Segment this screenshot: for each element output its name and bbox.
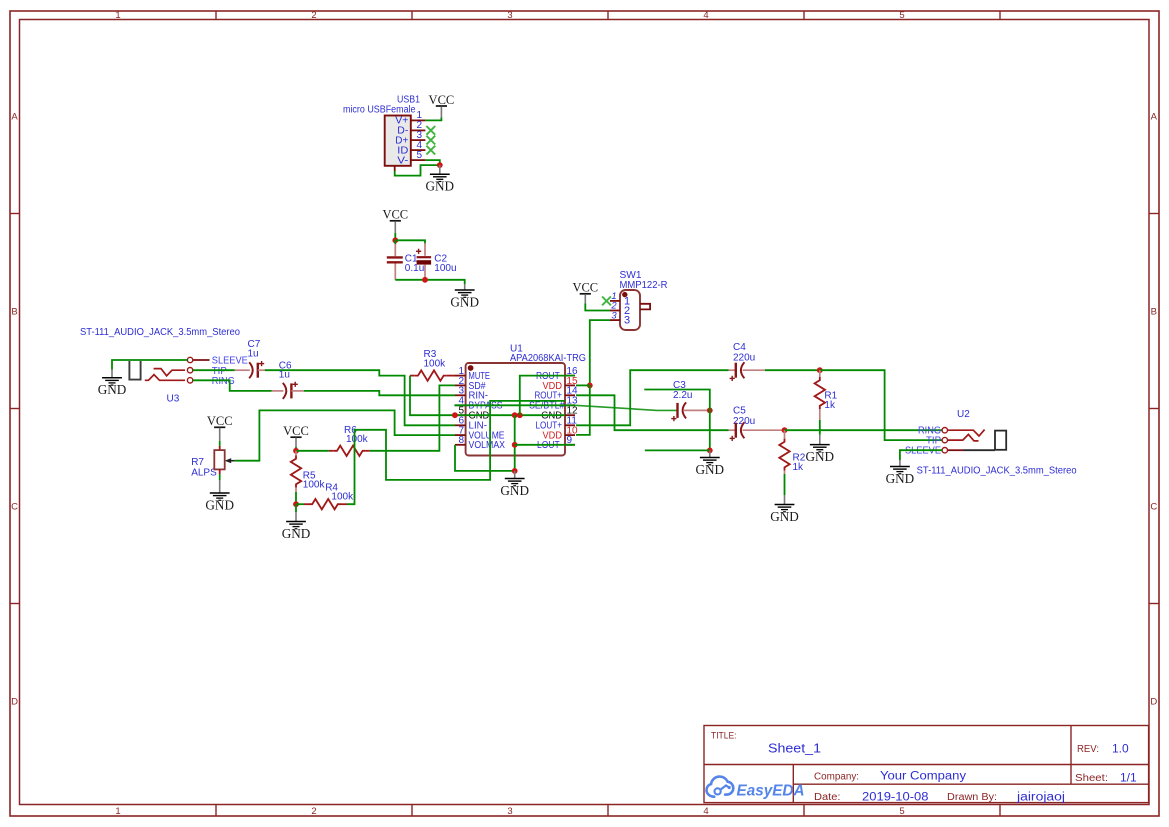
wire C1/C2 bottoms to GND <box>395 280 464 284</box>
wire C6 to U1 RIN- <box>304 391 455 395</box>
svg-text:Drawn By:: Drawn By: <box>947 792 997 803</box>
junction below U1 <box>512 468 518 474</box>
svg-text:VCC: VCC <box>382 208 408 222</box>
pin 3 (D+) <box>411 139 426 141</box>
ground (GND at U3) <box>98 378 127 397</box>
capacitor C1 0.1u <box>387 244 424 280</box>
wire pin15 to VDD net <box>576 384 590 386</box>
svg-text:1.0: 1.0 <box>1112 742 1129 756</box>
resistor R4 100k <box>304 482 354 509</box>
wire R5 to node <box>295 492 297 504</box>
junction at C1/C2 top node <box>392 237 398 243</box>
ground (GND at U2) <box>886 467 915 486</box>
svg-text:GND: GND <box>696 462 725 477</box>
wire VOLMAX to GND <box>455 445 515 471</box>
wire R4 jog to U1 <box>347 401 565 504</box>
svg-text:A: A <box>1151 112 1158 123</box>
wire upper into C3 node <box>644 390 710 411</box>
wire BYPASS to SE/BTL# <box>454 404 575 406</box>
svg-text:4: 4 <box>703 10 708 21</box>
wire C4 row to U2 TIP <box>820 370 942 440</box>
wire node to R4 <box>296 503 304 505</box>
capacitor C6 1u <box>272 361 304 399</box>
svg-text:U2: U2 <box>957 409 970 420</box>
svg-text:GND: GND <box>770 509 799 524</box>
ground (GND below USB1) <box>426 174 455 193</box>
wire R6 to U1 SD# <box>370 385 455 450</box>
svg-text:3: 3 <box>624 315 630 327</box>
wire (ground stem) <box>514 471 516 479</box>
pin 2 (D-) <box>411 129 426 131</box>
no-connect on USB1 pin 4 <box>426 146 435 155</box>
svg-text:1: 1 <box>115 10 120 21</box>
wire USB1 shield to GND node <box>395 165 440 176</box>
svg-text:1: 1 <box>115 806 120 817</box>
svg-text:RING: RING <box>212 376 235 387</box>
svg-text:4: 4 <box>703 806 708 817</box>
SW1 pin 3 <box>610 319 620 321</box>
U2 SLEEVE pin <box>948 449 964 451</box>
U1 pin 8 (VOLMAX) <box>455 435 505 451</box>
wire node to R6 <box>296 450 329 452</box>
wire LOUT- row to gnd node <box>645 449 710 451</box>
svg-text:GND: GND <box>426 179 455 194</box>
svg-text:1k: 1k <box>793 462 805 473</box>
svg-text:1/1: 1/1 <box>1120 771 1137 785</box>
pin 5 (V-) <box>411 159 426 161</box>
svg-text:5: 5 <box>899 806 904 817</box>
svg-text:C: C <box>11 502 18 513</box>
U2 pin circles <box>942 428 947 433</box>
ground (GND below R2) <box>770 505 799 524</box>
U3 pin circles <box>187 357 192 362</box>
junction GND row b <box>517 412 523 418</box>
U3 SLEEVE pin <box>193 359 210 361</box>
svg-text:8: 8 <box>458 435 464 446</box>
wire ROUT+ down to C5 <box>576 395 729 430</box>
switch SW1 MMP122-R <box>610 270 668 330</box>
svg-text:5: 5 <box>417 150 423 161</box>
wire LOUT+ to C4 <box>576 370 729 425</box>
capacitor C2 100u <box>416 243 457 280</box>
wire U3 ring to C6 <box>193 380 272 391</box>
svg-text:Sheet:: Sheet: <box>1075 773 1108 784</box>
svg-text:ST-111_AUDIO_JACK_3.5mm_Stereo: ST-111_AUDIO_JACK_3.5mm_Stereo <box>917 466 1077 477</box>
SW1 pin 1 <box>610 300 620 302</box>
svg-text:GND: GND <box>450 294 479 309</box>
power VCC (VCC at USB1) <box>429 93 455 118</box>
wire (ground stem) <box>709 450 711 457</box>
wire U3 sleeve to GND <box>112 360 187 370</box>
wire GND row down <box>514 415 516 471</box>
wire VCC to node <box>295 447 297 451</box>
U1 pin 3 (RIN-) <box>455 386 488 402</box>
svg-text:Date:: Date: <box>814 792 841 803</box>
power VCC (VCC at SW1) <box>572 281 598 304</box>
U1 pin 12 (GND) <box>541 406 578 422</box>
svg-text:3: 3 <box>611 310 617 321</box>
svg-text:GND: GND <box>500 483 529 498</box>
svg-text:U3: U3 <box>167 394 180 405</box>
ground (GND below R5) <box>282 522 311 541</box>
svg-text:TITLE:: TITLE: <box>711 731 737 741</box>
wire node to C1 <box>394 240 396 244</box>
svg-text:VOLMAX: VOLMAX <box>469 440 506 451</box>
svg-text:100k: 100k <box>331 492 354 503</box>
U1 pin 4 (BYPASS) <box>455 396 503 412</box>
U2 RING contact <box>948 430 985 436</box>
svg-text:2019-10-08: 2019-10-08 <box>862 792 929 804</box>
svg-text:C4: C4 <box>733 342 746 353</box>
U1 pin 10 (VDD) <box>543 426 579 442</box>
U1 pin 6 (LIN-) <box>455 416 487 432</box>
svg-text:SLEEVE: SLEEVE <box>905 446 941 457</box>
ground (GND below C3) <box>696 458 725 477</box>
power VCC (VCC at C1/C2) <box>382 208 408 233</box>
wire ROUT- to GND row <box>520 376 575 416</box>
svg-text:D: D <box>1150 697 1157 708</box>
svg-text:ST-111_AUDIO_JACK_3.5mm_Stereo: ST-111_AUDIO_JACK_3.5mm_Stereo <box>80 327 240 338</box>
ground (GND below R7) <box>205 493 234 512</box>
U1 pin 9 (LOUT-) <box>537 435 575 451</box>
junction LOUT- row <box>512 442 518 448</box>
svg-text:GND: GND <box>98 382 127 397</box>
capacitor C3 2.2u <box>671 380 710 421</box>
no-connect on SW1 pin 1 <box>602 297 611 306</box>
wire (ground stem) <box>439 165 441 174</box>
U3 RING contact <box>145 375 185 381</box>
svg-text:2.2u: 2.2u <box>673 390 692 401</box>
svg-text:jairojaoj: jairojaoj <box>1016 792 1065 804</box>
svg-text:0.1u: 0.1u <box>405 263 424 274</box>
wire node to GND <box>295 504 297 512</box>
wire C4 to R1 node <box>765 369 820 371</box>
svg-text:1u: 1u <box>248 349 259 360</box>
svg-text:GND: GND <box>886 471 915 486</box>
svg-text:1u: 1u <box>279 370 290 381</box>
U3 plug body <box>129 361 140 380</box>
wire SW1 pin3 down to VDD net <box>590 320 610 385</box>
U1 pin 14 (ROUT+) <box>535 386 579 402</box>
wire GND row through U1 <box>455 414 565 416</box>
svg-text:B: B <box>1151 307 1157 318</box>
pin 1 (V+) <box>411 119 426 121</box>
wire R3 left to GND row <box>410 376 455 416</box>
SW1 pin 2 <box>610 310 620 312</box>
connector U2 ST-111 audio jack right <box>905 409 1077 477</box>
svg-text:2: 2 <box>311 10 316 21</box>
svg-text:GND: GND <box>205 497 234 512</box>
wire (ground stem) <box>819 435 821 445</box>
wire VCC to SW1 pin2 <box>585 304 610 311</box>
U1 pin 2 (SD#) <box>455 376 486 392</box>
resistor R6 100k <box>329 425 370 456</box>
svg-text:VCC: VCC <box>572 281 598 295</box>
wire VDD net to pin10 <box>576 385 590 435</box>
wire (ground stem) <box>464 284 466 290</box>
resistor R2 1k <box>779 430 805 474</box>
svg-text:100k: 100k <box>303 480 326 491</box>
U3 TIP contact <box>154 369 185 376</box>
svg-text:220u: 220u <box>733 353 755 364</box>
svg-text:100u: 100u <box>434 263 456 274</box>
op-amp U1 APA2068KAI-TRG <box>466 344 587 456</box>
wire diagonal SE/BTL# to C3 <box>575 405 678 410</box>
svg-text:Sheet_1: Sheet_1 <box>768 741 821 756</box>
U1 pin 16 (ROUT-) <box>536 366 578 382</box>
power VCC (VCC at R7) <box>207 414 233 441</box>
svg-text:GND: GND <box>282 526 311 541</box>
wire U2 sleeve to GND <box>900 450 942 460</box>
wire USB1 pin5 to GND node <box>425 160 439 165</box>
U1 pin 5 (GND) <box>455 406 489 422</box>
resistor R1 1k <box>815 370 838 420</box>
junction at C2 bottom <box>422 277 428 283</box>
svg-text:C5: C5 <box>733 406 746 417</box>
svg-text:Your Company: Your Company <box>880 771 966 783</box>
wire (ground stem) <box>784 495 786 505</box>
U2 plug body <box>995 431 1006 450</box>
wire R2 to GND <box>784 474 786 495</box>
U1 pin 1 (MUTE) <box>455 366 490 382</box>
wire VCC to USB1 pin1 <box>425 118 441 121</box>
wire C3 node down <box>709 410 711 450</box>
svg-text:D: D <box>11 697 18 708</box>
svg-text:100k: 100k <box>424 359 447 370</box>
junction at U1 pin5 <box>452 412 458 418</box>
wire (ground stem) <box>111 370 113 378</box>
svg-text:ALPS: ALPS <box>191 467 217 478</box>
svg-text:B: B <box>11 307 17 318</box>
title block <box>704 726 1149 804</box>
wire to LOUT- pin9 <box>515 444 575 446</box>
U1 pin 15 (VDD) <box>543 376 579 392</box>
junction at R4/R5 node <box>293 501 299 507</box>
connector USB1 micro USBFemale <box>343 95 425 172</box>
ground (GND below C1/C2) <box>450 290 479 309</box>
capacitor C4 220u <box>729 342 766 381</box>
svg-text:C: C <box>1150 502 1157 513</box>
EasyEDA logo <box>707 777 805 800</box>
resistor R5 100k <box>291 451 326 492</box>
capacitor C7 1u <box>235 339 265 378</box>
wire node to C2 <box>395 240 425 244</box>
U2 TIP contact <box>948 434 979 441</box>
ground (GND below R1) <box>806 445 835 464</box>
no-connect on USB1 pin 2 <box>426 126 435 135</box>
junction at C4/R1 <box>817 367 823 373</box>
wire (ground stem) <box>295 512 297 522</box>
wire U3 tip to C7 <box>193 369 235 371</box>
junction at C5/R2 <box>782 427 788 433</box>
resistor R3 100k <box>410 349 455 381</box>
wire R7 wiper to U1 VOLUME <box>235 410 455 460</box>
junction at U1 pin15 <box>587 383 593 389</box>
U1 pin 11 (LOUT+) <box>536 416 578 432</box>
junction at C3 gnd row <box>707 448 713 454</box>
junction at USB GND node <box>437 162 443 168</box>
wire VCC down to node <box>394 233 396 240</box>
USB1 shield pin <box>394 166 396 171</box>
wire (ground stem) <box>219 480 221 493</box>
svg-text:3: 3 <box>507 10 512 21</box>
wire (ground stem) <box>899 460 901 467</box>
potentiometer R7 ALPS <box>191 441 235 480</box>
ground (GND below U1) <box>500 479 529 498</box>
svg-text:V-: V- <box>397 155 408 166</box>
wire R1 to GND <box>819 420 821 435</box>
svg-text:A: A <box>11 112 18 123</box>
junction at R5/R6 node <box>293 448 299 454</box>
junction at C3 out <box>707 408 713 414</box>
connector U3 ST-111 audio jack left <box>80 327 248 405</box>
svg-text:1k: 1k <box>824 400 836 411</box>
svg-text:EasyEDA: EasyEDA <box>737 783 805 800</box>
svg-text:VCC: VCC <box>207 414 233 428</box>
svg-text:LOUT-: LOUT- <box>537 440 562 451</box>
wire C7 to U1 LIN- <box>265 370 455 425</box>
svg-text:micro USBFemale: micro USBFemale <box>343 105 416 116</box>
svg-text:Company:: Company: <box>814 772 859 783</box>
U1 pin 13 (SE/BTL#) <box>529 396 578 412</box>
svg-text:VCC: VCC <box>283 424 309 438</box>
svg-text:GND: GND <box>806 449 835 464</box>
junction GND row a <box>512 412 518 418</box>
no-connect on USB1 pin 3 <box>426 136 435 145</box>
svg-text:REV:: REV: <box>1077 744 1099 755</box>
svg-text:3: 3 <box>507 806 512 817</box>
svg-text:5: 5 <box>899 10 904 21</box>
svg-text:100k: 100k <box>346 434 369 445</box>
power VCC (VCC at R5/R6) <box>283 424 309 447</box>
capacitor C5 220u <box>729 406 785 442</box>
pin 4 (ID) <box>411 149 426 151</box>
svg-text:2: 2 <box>311 806 316 817</box>
U1 pin 7 (VOLUME) <box>455 426 505 442</box>
svg-text:VCC: VCC <box>429 93 455 107</box>
wire C5 to U2 RING <box>785 429 943 431</box>
